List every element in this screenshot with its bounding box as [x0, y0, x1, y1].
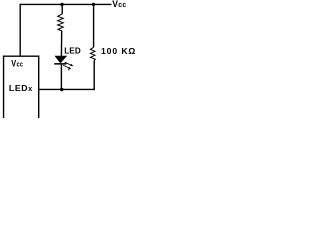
resistor R1 (series LED resistor, unlabeled): [58, 14, 64, 31]
IC box U1: [4, 56, 39, 118]
wire: box top to top rail: [19, 4, 21, 56]
LED emission arrow 2: [63, 65, 71, 70]
wire: top rail: [20, 3, 112, 5]
LED emission arrow 1: [65, 62, 74, 66]
svg-text:LEDx: LEDx: [9, 83, 33, 93]
wire: right branch bottom up to resistor R2: [93, 60, 95, 89]
LED D1 triangle (anode): [55, 56, 66, 63]
svg-text:Vcc: Vcc: [112, 0, 126, 9]
label LED: [64, 47, 81, 56]
pin label LEDx (inside box): [9, 83, 33, 93]
wire: resistor R1 to LED anode: [60, 31, 62, 57]
node junction at LED branch: [60, 3, 63, 6]
LED D1 cathode bar: [54, 63, 66, 65]
node junction at resistor branch: [92, 3, 95, 6]
node junction at bottom wire: [60, 88, 63, 91]
wire: top rail to resistor R1: [61, 4, 63, 13]
svg-text:100 KΩ: 100 KΩ: [101, 46, 136, 56]
wire: bottom rail from box to right branch: [39, 88, 95, 90]
power label Vcc (top right): [112, 0, 126, 9]
wire: top rail down to resistor R2: [93, 4, 95, 47]
pin label Vcc (inside box): [11, 58, 23, 69]
resistor R2 100 KOhm zigzag: [90, 47, 95, 60]
wire: LED cathode down: [60, 64, 62, 89]
svg-text:LED: LED: [64, 47, 81, 56]
value label 100 KOhm: [101, 46, 136, 56]
